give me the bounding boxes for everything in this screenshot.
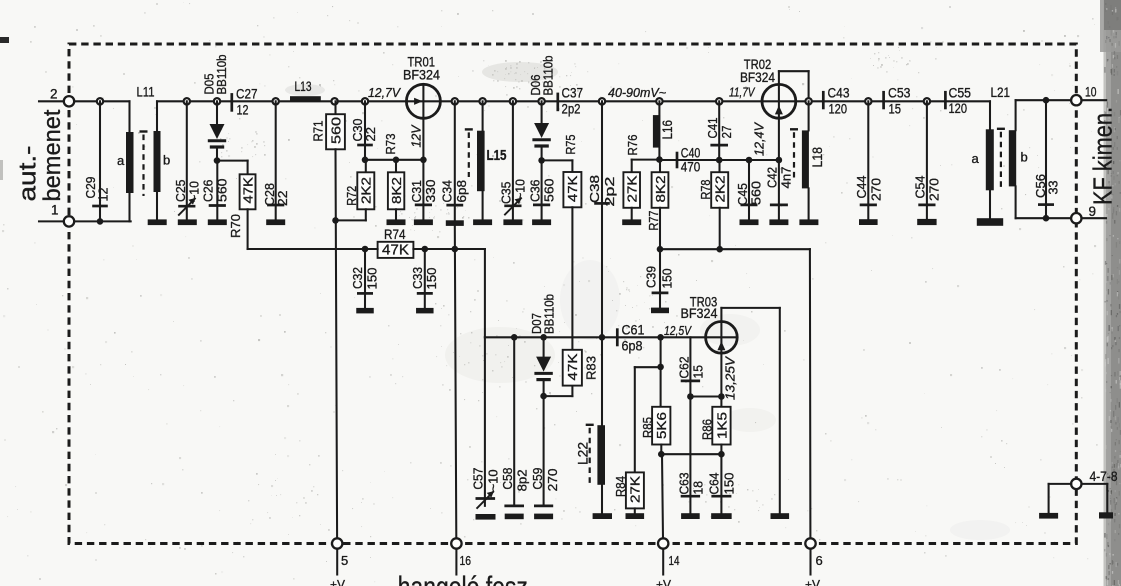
capacitor C55 xyxy=(945,85,971,116)
svg-text:6p8: 6p8 xyxy=(454,180,469,203)
wire xyxy=(413,248,485,250)
svg-text:L18: L18 xyxy=(810,147,825,168)
svg-text:150: 150 xyxy=(722,473,737,495)
node xyxy=(214,157,221,164)
node xyxy=(746,157,753,164)
resistor R76 xyxy=(623,135,659,220)
svg-text:12: 12 xyxy=(96,188,111,202)
svg-text:C64: C64 xyxy=(707,473,722,495)
svg-text:10: 10 xyxy=(1085,84,1097,99)
svg-text:~10: ~10 xyxy=(485,469,500,491)
node xyxy=(362,246,369,253)
diode D05 xyxy=(202,55,229,161)
capacitor C56 xyxy=(1033,97,1061,218)
capacitor C45 xyxy=(735,160,764,219)
node xyxy=(716,157,723,164)
svg-text:C41: C41 xyxy=(705,118,720,139)
terminal 10 xyxy=(1071,84,1106,105)
svg-text:15: 15 xyxy=(889,102,902,117)
ground xyxy=(1039,513,1058,519)
svg-text:270: 270 xyxy=(545,468,560,491)
node xyxy=(657,246,664,253)
ground xyxy=(681,513,700,519)
svg-text:C42: C42 xyxy=(765,167,780,188)
resistor R70 xyxy=(217,161,256,249)
ground xyxy=(593,513,612,519)
svg-text:330: 330 xyxy=(423,180,438,203)
svg-text:C37: C37 xyxy=(562,86,584,101)
svg-text:12,5V: 12,5V xyxy=(664,323,692,338)
svg-text:C63: C63 xyxy=(677,473,692,495)
svg-text:L21: L21 xyxy=(991,84,1011,100)
svg-text:270: 270 xyxy=(868,178,883,201)
svg-text:+V: +V xyxy=(330,578,345,586)
svg-text:6p8: 6p8 xyxy=(622,339,643,354)
svg-text:27K: 27K xyxy=(628,476,643,503)
svg-text:~10: ~10 xyxy=(512,179,527,200)
wire xyxy=(336,149,338,538)
capacitor C38 xyxy=(587,98,617,337)
svg-text:C53: C53 xyxy=(888,86,911,101)
svg-text:11,7V: 11,7V xyxy=(729,85,756,100)
svg-text:8K2: 8K2 xyxy=(389,177,404,204)
capacitor C37 xyxy=(558,86,583,117)
ground xyxy=(859,219,878,225)
ground xyxy=(178,219,197,225)
svg-text:2p2: 2p2 xyxy=(602,177,617,207)
svg-text:16: 16 xyxy=(460,553,472,568)
svg-text:R74: R74 xyxy=(384,227,406,242)
capacitor C30 xyxy=(350,98,378,160)
wire xyxy=(661,453,721,455)
capacitor C53 xyxy=(884,86,911,117)
capacitor C61 xyxy=(617,323,644,354)
ground xyxy=(476,514,496,520)
svg-text:22: 22 xyxy=(275,191,290,207)
svg-text:33: 33 xyxy=(1045,181,1060,195)
svg-text:4n7: 4n7 xyxy=(779,167,794,189)
capacitor C31 xyxy=(409,160,438,220)
node xyxy=(420,157,427,164)
resistor R83 xyxy=(544,350,599,396)
svg-text:270: 270 xyxy=(927,178,942,201)
ground xyxy=(387,219,406,225)
resistor R85 xyxy=(640,367,671,454)
terminal 4-7-8 xyxy=(1049,469,1118,513)
svg-text:R84: R84 xyxy=(613,476,628,497)
svg-text:C61: C61 xyxy=(622,323,645,338)
wire xyxy=(484,249,486,337)
svg-text:120: 120 xyxy=(949,101,968,116)
svg-text:12: 12 xyxy=(237,103,249,118)
svg-text:R75: R75 xyxy=(563,135,578,155)
node xyxy=(657,334,664,341)
svg-text:b: b xyxy=(1021,150,1028,165)
svg-text:560: 560 xyxy=(215,179,230,203)
svg-text:L15: L15 xyxy=(487,147,507,164)
svg-text:R76: R76 xyxy=(625,135,640,156)
resistor R72 xyxy=(336,160,375,221)
resistor R86 xyxy=(699,397,730,455)
ground xyxy=(651,308,669,314)
ground xyxy=(771,513,790,519)
node xyxy=(332,217,339,224)
resistor R74 xyxy=(378,227,414,259)
svg-text:R71: R71 xyxy=(311,121,326,142)
ground xyxy=(473,219,492,225)
node xyxy=(538,157,545,164)
node xyxy=(658,451,665,458)
svg-text:BB110b: BB110b xyxy=(542,294,557,334)
capacitor C58 xyxy=(500,334,529,506)
transistor TR03 xyxy=(681,295,780,514)
svg-text:47K: 47K xyxy=(382,243,409,259)
inductor L22 xyxy=(575,334,605,513)
svg-text:150: 150 xyxy=(424,268,439,290)
svg-text:13,25V: 13,25V xyxy=(723,355,737,400)
transformer L21 winding a xyxy=(972,101,994,218)
wire xyxy=(157,100,990,102)
ground xyxy=(1099,512,1113,518)
label aut. bemenet xyxy=(14,109,66,201)
svg-text:C43: C43 xyxy=(828,86,850,101)
node xyxy=(657,364,664,371)
svg-text:C59: C59 xyxy=(530,468,545,490)
svg-text:2K2: 2K2 xyxy=(713,176,728,203)
svg-text:BB110b: BB110b xyxy=(540,56,555,96)
svg-text:C54: C54 xyxy=(913,176,928,199)
svg-text:27K: 27K xyxy=(625,175,640,202)
svg-text:150: 150 xyxy=(364,268,379,290)
svg-text:+V: +V xyxy=(656,578,671,586)
ground xyxy=(626,513,645,519)
svg-text:L22: L22 xyxy=(575,442,590,465)
capacitor C39 xyxy=(644,249,675,307)
svg-text:1: 1 xyxy=(51,203,59,218)
wire xyxy=(485,336,737,338)
wire xyxy=(74,220,130,222)
svg-text:aut.-: aut.- xyxy=(14,146,41,202)
ground xyxy=(416,308,434,314)
svg-text:27: 27 xyxy=(719,126,734,139)
ground xyxy=(505,514,524,520)
transformer L21 winding b xyxy=(1009,100,1071,218)
capacitor C33 xyxy=(410,249,439,308)
terminal 5 xyxy=(332,538,348,574)
svg-text:2K2: 2K2 xyxy=(359,177,374,204)
svg-text:L13: L13 xyxy=(295,78,312,94)
svg-text:C26: C26 xyxy=(201,180,216,203)
inductor L16 xyxy=(653,98,675,160)
node xyxy=(716,246,723,253)
transformer L11 winding a xyxy=(117,101,134,221)
terminal 6 xyxy=(805,538,822,574)
inductor L15 core xyxy=(468,132,470,177)
svg-text:L11: L11 xyxy=(137,84,155,100)
capacitor C29 xyxy=(83,98,110,225)
svg-text:18: 18 xyxy=(690,481,705,495)
svg-text:12V: 12V xyxy=(410,124,424,148)
svg-text:560: 560 xyxy=(749,181,764,205)
node xyxy=(718,393,725,400)
wire xyxy=(571,207,573,349)
svg-text:R72: R72 xyxy=(344,186,359,206)
svg-text:bemenet: bemenet xyxy=(39,109,66,201)
capacitor C27 xyxy=(232,87,258,118)
svg-text:22: 22 xyxy=(363,127,378,142)
svg-text:R78: R78 xyxy=(698,180,713,200)
capacitor C40 xyxy=(677,145,700,174)
resistor R75 xyxy=(542,135,582,208)
terminal 2 xyxy=(39,87,74,107)
ground xyxy=(532,219,551,225)
node xyxy=(1043,215,1050,222)
svg-text:C62: C62 xyxy=(677,357,692,379)
svg-text:hangoló fesz: hangoló fesz xyxy=(398,572,528,586)
svg-text:12,4V: 12,4V xyxy=(752,121,766,156)
capacitor C42 xyxy=(765,160,794,219)
resistor R71 xyxy=(311,98,345,149)
inductor L18 xyxy=(802,101,825,219)
trimmer capacitor C25 xyxy=(173,98,201,219)
transformer L11 core xyxy=(140,132,148,197)
node xyxy=(362,157,369,164)
svg-text:2: 2 xyxy=(50,87,58,102)
svg-text:C44: C44 xyxy=(854,176,869,199)
terminal 16 xyxy=(451,538,471,574)
svg-text:C55: C55 xyxy=(949,85,972,100)
trimmer capacitor C57 xyxy=(471,337,501,508)
wire xyxy=(690,395,721,397)
ground xyxy=(799,219,818,225)
ground xyxy=(977,218,1003,226)
node xyxy=(393,157,400,164)
svg-text:15: 15 xyxy=(690,365,705,379)
svg-text:47K: 47K xyxy=(240,177,255,204)
terminal 9 xyxy=(1071,204,1106,224)
svg-text:b: b xyxy=(163,153,170,168)
svg-text:R85: R85 xyxy=(640,417,655,438)
diode D06 xyxy=(528,56,555,161)
svg-text:560: 560 xyxy=(328,117,343,144)
inductor L13 xyxy=(290,78,321,101)
inductor L15 xyxy=(477,98,507,219)
node xyxy=(656,156,663,163)
svg-text:KF kimen.: KF kimen. xyxy=(1087,107,1117,205)
svg-text:9: 9 xyxy=(1089,204,1097,219)
diode D07 xyxy=(529,294,556,396)
wire xyxy=(659,159,779,161)
wire xyxy=(809,249,812,538)
node xyxy=(718,451,725,458)
svg-text:BF324: BF324 xyxy=(681,306,718,321)
wire xyxy=(74,100,129,102)
svg-text:120: 120 xyxy=(829,102,848,117)
svg-text:6: 6 xyxy=(816,553,823,568)
svg-text:2p2: 2p2 xyxy=(562,102,581,117)
svg-text:C39: C39 xyxy=(644,266,659,288)
transistor TR02 xyxy=(740,57,809,160)
svg-text:C45: C45 xyxy=(735,183,750,206)
svg-text:1K5: 1K5 xyxy=(714,412,729,439)
svg-text:~10: ~10 xyxy=(186,181,201,202)
node xyxy=(422,246,429,253)
capacitor C64 xyxy=(707,454,737,513)
inductor L22 core xyxy=(589,428,591,486)
ground xyxy=(740,219,759,225)
ground xyxy=(414,219,433,225)
svg-text:a: a xyxy=(117,153,125,168)
svg-text:L16: L16 xyxy=(660,120,675,140)
ground xyxy=(622,219,641,225)
wire xyxy=(248,248,378,250)
svg-text:R86: R86 xyxy=(699,419,714,440)
svg-text:BF324: BF324 xyxy=(740,70,775,85)
node xyxy=(805,98,811,104)
svg-text:5K6: 5K6 xyxy=(654,412,669,439)
svg-text:C32: C32 xyxy=(350,267,365,289)
capacitor C28 xyxy=(262,98,290,219)
wire xyxy=(635,366,661,368)
svg-text:C33: C33 xyxy=(410,267,425,289)
ground xyxy=(208,219,227,225)
svg-text:470: 470 xyxy=(681,159,701,174)
capacitor C62 xyxy=(677,337,706,396)
svg-text:C36: C36 xyxy=(527,180,542,203)
transistor TR01 xyxy=(403,55,440,160)
capacitor C44 xyxy=(854,98,883,219)
trimmer capacitor C35 xyxy=(499,98,528,219)
ground xyxy=(711,513,732,519)
svg-text:C57: C57 xyxy=(471,468,486,490)
terminal 14 xyxy=(658,538,680,574)
node xyxy=(540,393,547,400)
capacitor C36 xyxy=(527,160,556,219)
svg-text:47K: 47K xyxy=(565,353,580,380)
ground xyxy=(446,220,464,226)
svg-text:R77: R77 xyxy=(646,211,661,231)
svg-text:BF324: BF324 xyxy=(403,68,440,83)
capacitor C32 xyxy=(350,249,379,308)
capacitor C43 xyxy=(823,86,849,117)
svg-text:C34: C34 xyxy=(440,180,455,203)
node xyxy=(452,246,459,253)
wire xyxy=(660,337,662,367)
node xyxy=(776,157,783,164)
node xyxy=(687,393,694,400)
resistor R78 xyxy=(698,160,728,249)
wire xyxy=(455,226,457,539)
svg-text:12,7V: 12,7V xyxy=(368,85,401,100)
svg-text:a: a xyxy=(972,151,980,166)
svg-text:R83: R83 xyxy=(583,356,598,380)
ground xyxy=(917,219,936,225)
svg-text:R70: R70 xyxy=(228,214,243,238)
ground xyxy=(503,219,522,225)
resistor R84 xyxy=(613,367,644,513)
svg-text:+V: +V xyxy=(805,578,820,586)
svg-text:C31: C31 xyxy=(409,180,424,203)
capacitor C54 xyxy=(913,98,942,219)
capacitor C63 xyxy=(677,397,706,514)
wire xyxy=(662,454,663,538)
svg-text:C27: C27 xyxy=(236,87,258,102)
svg-text:8p2: 8p2 xyxy=(514,469,529,491)
transformer L21 core xyxy=(1000,132,1002,190)
ground xyxy=(148,219,167,225)
capacitor C26 xyxy=(201,160,230,219)
svg-text:C38: C38 xyxy=(587,175,602,203)
ground xyxy=(356,308,374,314)
capacitor C41 xyxy=(705,98,734,160)
ground xyxy=(266,219,285,225)
capacitor C59 xyxy=(530,396,560,506)
svg-text:4-7-8: 4-7-8 xyxy=(1090,469,1118,484)
svg-text:47K: 47K xyxy=(565,175,580,202)
svg-text:150: 150 xyxy=(659,269,674,289)
svg-text:R73: R73 xyxy=(383,134,398,155)
svg-text:C40: C40 xyxy=(681,145,701,160)
svg-text:5: 5 xyxy=(341,553,348,568)
inductor L18 core xyxy=(793,132,795,177)
svg-text:BB110b: BB110b xyxy=(214,55,229,95)
wire xyxy=(660,248,810,250)
terminal 1 xyxy=(39,203,74,227)
capacitor C34 xyxy=(440,98,469,220)
svg-text:560: 560 xyxy=(541,179,556,203)
wire xyxy=(365,159,423,161)
ground xyxy=(769,219,788,225)
svg-text:C58: C58 xyxy=(500,468,515,490)
resistor R73 xyxy=(383,134,405,220)
svg-text:8K2: 8K2 xyxy=(653,176,668,203)
ground xyxy=(534,514,553,520)
resistor R77 xyxy=(646,160,669,250)
transformer L11 winding b xyxy=(154,101,171,219)
svg-text:14: 14 xyxy=(669,553,680,568)
